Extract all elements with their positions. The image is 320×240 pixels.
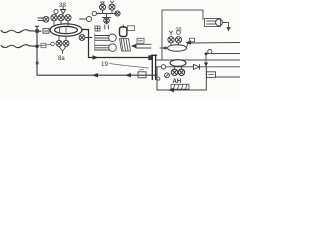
arrow left on line y=42.5 <box>186 40 192 44</box>
wire from oval right up to line y=42.5 <box>187 43 241 48</box>
drain circle at bar bottom <box>157 77 160 80</box>
pilot circle on box top edge <box>161 65 165 69</box>
wire line y=53.5 with corner up <box>206 54 240 61</box>
node junction J3 <box>36 62 39 65</box>
gauge G1 crossed circle <box>51 15 57 21</box>
upper separator cluster: Y glyph <box>169 31 172 35</box>
wire line y=60 across to edge <box>156 59 240 61</box>
tick pair below cluster <box>105 25 109 29</box>
wire box top edge line y=66.8 to edge <box>156 66 240 68</box>
gauge G2 crossed circle <box>58 15 64 21</box>
gauge G4 crossed circle with leads left <box>38 16 49 22</box>
arrow left on box bottom edge <box>168 88 174 92</box>
gauge G12 crossed circle <box>168 37 174 43</box>
bottle component D1 <box>120 25 127 37</box>
bottom enclosure frame <box>157 67 206 90</box>
gauge G10 crossed circle right end <box>115 11 120 16</box>
separator bar T1 double vertical <box>152 55 157 80</box>
label 38 <box>59 2 66 9</box>
valve V2 on branch to lower gauges <box>39 43 51 47</box>
terminal box on right edge <box>207 72 216 78</box>
sensor circle S1 with lead <box>80 16 92 21</box>
arrow down at pump drop <box>226 27 230 32</box>
svg-text:8a: 8a <box>58 56 65 62</box>
funnel glyph above G8 <box>101 2 104 5</box>
wire from terminal box to edge <box>216 76 241 78</box>
gauge G5 crossed circle lower right of burner <box>79 35 92 41</box>
bracket at mid line end <box>148 55 152 60</box>
slashed circle in box <box>165 73 170 78</box>
gauge G6 crossed circle <box>56 40 62 46</box>
wire from pump to drop <box>223 23 229 28</box>
wire stems inside burner body <box>60 27 67 34</box>
valve V1 on upper supply line <box>43 29 49 34</box>
funnel symbol F1 <box>61 7 66 14</box>
flag tick on line y=42.5 <box>190 38 195 42</box>
wire from oval left with arrow <box>160 47 167 49</box>
pilot circle P3 left end <box>92 11 96 15</box>
node junction J1 <box>35 29 38 32</box>
wire converging stems below gauges <box>59 47 66 54</box>
wire double lines to separator <box>136 44 151 48</box>
coil unit M1 circle with leads <box>95 34 116 42</box>
svg-text:19: 19 <box>101 61 108 68</box>
label 98 <box>176 27 182 33</box>
block D4 on bottom line <box>138 70 146 78</box>
arrow left into oval inlet <box>162 46 167 50</box>
gauge G7 crossed circle <box>63 40 69 46</box>
check valve triangle on box top line <box>194 64 200 69</box>
arrow on mid line y=57.5 <box>93 55 99 59</box>
wire bottom return line y=75 <box>37 74 157 76</box>
hatched pad in box <box>171 84 189 89</box>
svg-text:38: 38 <box>59 2 66 9</box>
gauge G11 crossed circle on center stem <box>104 18 110 24</box>
cassette rectangle D2 <box>128 26 135 31</box>
upper oval vessel OV1 <box>168 43 187 51</box>
gauge G9 crossed circle <box>109 4 115 10</box>
coil unit M2 circle with leads <box>95 44 116 52</box>
arrow wedge at exchanger outlet <box>131 44 137 48</box>
legs from lower oval <box>175 66 182 69</box>
upper cluster small circle glyph <box>177 31 181 35</box>
label 19 with leader <box>101 61 108 68</box>
leader line for 19 <box>110 64 149 69</box>
wire coil terminal rail <box>94 34 96 51</box>
label AH <box>173 79 182 85</box>
burner body double oval B1 <box>50 24 82 36</box>
junction box glyph <box>95 26 100 31</box>
top sensor cluster stems <box>97 10 117 24</box>
hatched exchanger H1 <box>120 39 131 52</box>
top enclosure frame <box>162 10 203 60</box>
wire burner outlet bus to mid line <box>82 30 150 58</box>
pilot circle P2 <box>51 42 55 46</box>
wire stems to bottom gauges <box>59 36 66 40</box>
wire squiggle supply line lower-left <box>1 45 37 48</box>
arrow left on bottom line at x=128 <box>125 73 131 77</box>
gauge G14 crossed circle in box <box>171 69 177 75</box>
small block D3 with dash <box>137 38 144 43</box>
gauge G3 crossed circle <box>65 15 71 21</box>
gauge G15 crossed circle in box <box>178 69 184 75</box>
node junction J2 <box>36 45 39 48</box>
gauge G8 crossed circle <box>100 4 106 10</box>
label 8a <box>58 56 65 62</box>
lower oval vessel OV2 <box>170 60 186 67</box>
pump unit PU1 top right <box>205 19 223 27</box>
arrow left on bottom line at x=95 <box>92 73 98 77</box>
node dot at corner <box>205 52 208 55</box>
pilot circle P1 <box>54 9 58 13</box>
arrow down on vertical into box corner <box>205 60 207 67</box>
pilot circle on y=53.5 <box>208 50 212 54</box>
gauge G13 crossed circle <box>175 37 181 43</box>
wire stems to top gauges <box>54 14 68 26</box>
Y glyph above G9 <box>110 1 113 5</box>
wire squiggle supply line upper-left <box>1 30 41 33</box>
wire vertical riser x=37 with top stub <box>36 26 39 75</box>
